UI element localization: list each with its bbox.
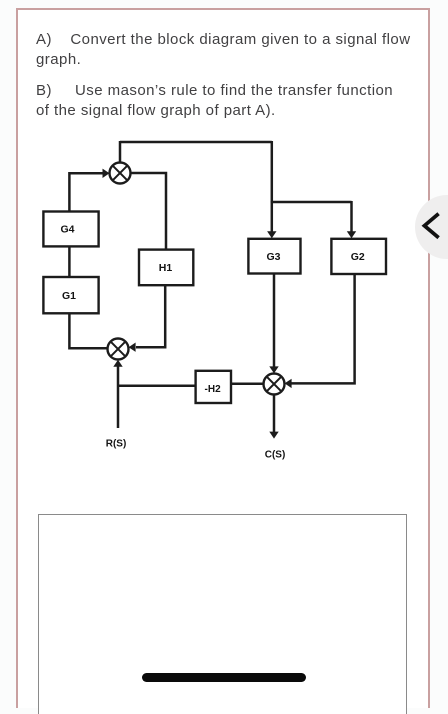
wire -H2 right side into summer S3 (231, 382, 264, 385)
arrowhead into summer S3 top (from G3) (269, 366, 278, 373)
chevron button circle (415, 195, 448, 259)
block G4 (43, 212, 98, 247)
wire summer S1 right then down into H1 top (131, 173, 167, 250)
wire top horizontal from summer S1 to right branch (120, 141, 272, 144)
home indicator bar (142, 673, 306, 682)
wire G4 output up and right into summer S1 (69, 173, 103, 211)
question text B (36, 81, 396, 121)
wire drop into G2 (350, 201, 353, 233)
summer S1 (top summing junction) (110, 163, 131, 184)
arrowhead into summer S3 right (from G2) (285, 379, 292, 388)
arrowhead into summer S2 right (129, 343, 136, 352)
wire H1 bottom down then left toward summer S2 (136, 285, 165, 347)
question text A (36, 30, 417, 70)
block H1 (139, 250, 193, 286)
X inside summer S3 (267, 377, 282, 392)
arrowhead into G2 top (347, 231, 356, 238)
X inside summer S1 (113, 166, 128, 181)
bottom empty answer box (38, 514, 407, 714)
arrowhead into summer S1 left (103, 169, 110, 178)
wire drop into G3 (271, 201, 274, 233)
chevron arrow (424, 214, 438, 238)
arrowhead into G3 top (267, 231, 276, 238)
wire G2 output down then left into summer S3 right (291, 274, 355, 383)
wire from top wire down into summer S1 top (119, 141, 122, 163)
wire G3 output down into summer S3 top (273, 274, 276, 368)
wire from R(S) line right into -H2 left side (117, 385, 196, 388)
block -H2 (196, 371, 231, 403)
wire G1 down and right into summer S2 (69, 313, 107, 348)
arrowhead output C(S) down (269, 432, 278, 439)
wire output of summer S3 down to C(S) (273, 395, 276, 432)
X inside summer S2 (111, 342, 126, 357)
wire between G4 and G1 (68, 246, 71, 277)
wire branch horizontal to G2 drop (271, 201, 352, 204)
block G1 (43, 277, 98, 313)
block G2 (331, 239, 386, 274)
wire R(S) input vertical up into summer S2 (117, 366, 120, 428)
arrowhead into summer S2 bottom (from R(S)) (113, 360, 122, 367)
summer S2 (bottom-left summing junction) (108, 339, 129, 360)
wire right vertical from top wire down to branch node (271, 141, 274, 202)
block G3 (248, 239, 300, 274)
summer S3 (bottom-right summing junction) (264, 374, 285, 395)
